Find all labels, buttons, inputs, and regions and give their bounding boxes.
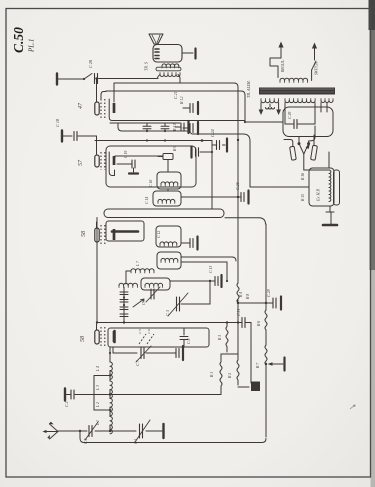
rectifier plate left xyxy=(290,146,297,160)
ground bar of C2 xyxy=(65,389,71,401)
tube 57 xyxy=(95,152,114,170)
svg-text:Ex H.P.: Ex H.P. xyxy=(316,188,321,202)
HT right wire xyxy=(314,103,316,124)
capacitor C22 xyxy=(183,124,193,133)
wire coil top xyxy=(109,347,111,362)
field coil core xyxy=(334,170,340,205)
wire screen feed upper xyxy=(181,257,236,261)
box around 58 cathode xyxy=(106,221,144,241)
wire screen rail xyxy=(106,91,245,95)
tube 47 grid hook xyxy=(101,92,106,101)
loudspeaker HP cone xyxy=(149,34,163,44)
wire plate supply rail xyxy=(114,83,238,88)
terminal bar of C22 xyxy=(197,122,199,134)
IF transformer MF3 winding xyxy=(160,242,177,246)
antenna coil L2 xyxy=(96,399,112,416)
capacitor C10 xyxy=(176,349,179,358)
IF transformer MF1 can xyxy=(153,191,181,206)
svg-text:L 3: L 3 xyxy=(96,385,100,391)
resistor R4 xyxy=(237,283,243,303)
resistor R9 xyxy=(158,146,177,160)
svg-text:L 2: L 2 xyxy=(96,402,100,408)
transformer TR.S secondary winding xyxy=(160,73,180,77)
svg-text:C 21: C 21 xyxy=(173,91,178,99)
filament wire left arrow xyxy=(259,103,264,115)
tube 47 label xyxy=(77,102,84,109)
wire HT vertical V3 upper xyxy=(265,224,267,310)
IF transformer MF2 winding xyxy=(161,182,178,186)
terminal bar of C1 xyxy=(162,424,164,438)
svg-text:C 1: C 1 xyxy=(134,439,138,444)
svg-text:C 6: C 6 xyxy=(147,329,151,334)
IF transformer MF3 can xyxy=(156,226,181,247)
rectifier filament V xyxy=(299,144,309,154)
capacitor C16 label xyxy=(149,180,153,187)
capacitor C28 xyxy=(266,289,276,308)
oscillator coupling can xyxy=(157,252,181,269)
wire to right plate xyxy=(313,135,315,146)
capacitor C2 xyxy=(65,390,74,407)
svg-text:58: 58 xyxy=(81,231,87,237)
svg-text:C 16: C 16 xyxy=(149,180,153,187)
svg-text:C 14: C 14 xyxy=(145,197,149,204)
capacitor C12 label xyxy=(157,231,161,238)
tube 47 cathode xyxy=(109,99,112,121)
svg-text:C 18: C 18 xyxy=(55,118,60,127)
wire HT to field coil box xyxy=(250,186,309,188)
wire R9 to IF transformer xyxy=(167,160,169,173)
wire secondary right end to HT rail xyxy=(178,75,180,84)
wire tap lower xyxy=(94,409,111,411)
HT left wire xyxy=(284,103,286,124)
wire tube 47 plate to rail xyxy=(113,83,115,102)
terminal bar of C28 xyxy=(280,297,282,310)
wire tube 57 plate lead xyxy=(115,156,163,158)
wire V3 mid xyxy=(265,330,267,345)
field coil box xyxy=(309,168,334,206)
wire to filament right xyxy=(309,126,315,144)
capacitor C29 xyxy=(285,112,315,129)
wire MF3 to C25 xyxy=(181,242,190,244)
oscillator winding xyxy=(145,283,163,287)
capacitor C15 in series xyxy=(143,123,151,132)
svg-text:C 20: C 20 xyxy=(88,59,93,68)
wire grid return xyxy=(110,394,221,396)
box around detector stage xyxy=(106,146,196,187)
resistor R15 label xyxy=(301,194,305,202)
wire V2 lower xyxy=(237,300,239,354)
pencil mark xyxy=(350,405,355,409)
wire rectifier output xyxy=(304,154,329,170)
wire cathode bus under tube 47 xyxy=(112,95,245,122)
box around converter cathode xyxy=(108,328,209,347)
svg-text:L 4: L 4 xyxy=(96,366,100,372)
rectifier anode arrow xyxy=(306,144,310,149)
chassis connection blob xyxy=(251,382,260,392)
wire C1 to terminal xyxy=(146,430,162,432)
svg-text:58: 58 xyxy=(80,336,86,342)
transformer TR.S core xyxy=(156,67,181,71)
wire tap upper xyxy=(94,374,111,376)
converter cathode bar xyxy=(113,331,116,342)
power supply box xyxy=(283,107,333,137)
svg-text:REGUL.: REGUL. xyxy=(281,59,285,73)
filament winding 6.3V xyxy=(261,99,279,103)
svg-text:47: 47 xyxy=(77,102,84,109)
svg-text:R 9: R 9 xyxy=(173,146,177,152)
capacitor C13 xyxy=(209,266,218,286)
resistor R3 xyxy=(218,323,228,353)
svg-text:C 13: C 13 xyxy=(209,266,213,273)
svg-text:C 3: C 3 xyxy=(165,310,170,316)
switch S1 (on/off) contact xyxy=(83,74,92,81)
capacitor C25 xyxy=(190,239,193,248)
resistor R2 xyxy=(228,354,239,385)
svg-text:SWITCH: SWITCH xyxy=(315,62,319,75)
svg-text:R 3: R 3 xyxy=(218,335,222,341)
trimmer C6 dashed xyxy=(147,329,154,344)
tube 57 label xyxy=(78,159,84,166)
wire secondary left end down xyxy=(158,75,161,79)
wire AVC drop to shield box xyxy=(211,141,213,210)
capacitor C21 xyxy=(173,91,193,112)
svg-text:C 2: C 2 xyxy=(65,402,69,407)
wire diode load line xyxy=(181,196,239,198)
switch to mains xyxy=(312,43,319,81)
wire box bottom edge under 47 stage xyxy=(110,122,180,124)
terminal bar of C24 xyxy=(226,139,228,152)
tube 58 label xyxy=(81,231,87,237)
padding capacitor C9 xyxy=(142,287,160,305)
wire screen line to V3 xyxy=(225,218,266,224)
regulator tap jog xyxy=(270,58,281,78)
primary tap winding xyxy=(280,78,308,82)
regulator tap arrow xyxy=(278,42,285,74)
ground bar of C18 xyxy=(61,131,63,142)
antenna coil L3 xyxy=(96,381,112,398)
ground bar of field coil xyxy=(323,224,337,227)
antenna coil L4 xyxy=(96,362,112,379)
tube 58 converter xyxy=(95,327,114,347)
oscillator can xyxy=(141,278,170,290)
wire C18 to grid of 57 xyxy=(78,136,97,154)
svg-text:R 12: R 12 xyxy=(179,97,184,105)
tuning capacitor C3 xyxy=(165,293,188,316)
svg-text:C.50: C.50 xyxy=(11,27,26,53)
wire to left plate xyxy=(284,140,293,147)
wire converter grid feed xyxy=(96,218,98,323)
terminal bar of tap xyxy=(283,358,285,371)
capacitor C16 xyxy=(196,148,214,156)
tuning capacitor C1 xyxy=(134,420,150,444)
wire AVC bus xyxy=(95,139,212,142)
IF transformer MF2 can xyxy=(157,172,181,189)
svg-text:C 31: C 31 xyxy=(237,309,241,316)
resistor R13 label xyxy=(172,124,177,132)
filament center tap coil xyxy=(266,104,275,109)
wire R2 to chassis xyxy=(238,386,249,388)
terminal bar of C16 xyxy=(190,147,192,158)
svg-text:C 24: C 24 xyxy=(210,129,215,137)
terminal bar of C25 xyxy=(196,237,198,250)
capacitor C8 xyxy=(180,328,191,347)
wire HT vertical V2 xyxy=(237,88,239,283)
capacitor C14 label xyxy=(145,197,149,204)
node filament right xyxy=(307,142,310,145)
oscillator coupling winding xyxy=(161,258,178,262)
terminal bar of C10 xyxy=(182,346,184,360)
svg-text:R 4: R 4 xyxy=(239,292,243,298)
trimmer capacitor C7 xyxy=(136,346,151,366)
svg-text:C 28: C 28 xyxy=(266,289,271,297)
wire coil link c xyxy=(109,407,111,416)
wire grid feed 58 xyxy=(96,222,98,228)
svg-text:C 19: C 19 xyxy=(124,151,128,158)
grid leak column xyxy=(120,287,128,322)
cathode bus of converter xyxy=(97,321,238,323)
voice coil bumps xyxy=(155,49,159,59)
rectifier filament winding xyxy=(321,99,333,103)
wire C31 to chassis xyxy=(245,323,251,384)
wire antenna to C4 xyxy=(58,430,87,432)
wire tap bracket xyxy=(93,376,95,411)
trimmer C5 dashed xyxy=(138,329,146,344)
wire to filament left xyxy=(298,137,300,144)
transformer TR.S primary winding xyxy=(162,64,179,68)
wire V3 lower xyxy=(265,363,267,437)
mains primary winding bar xyxy=(259,88,335,95)
wire upper AVC line xyxy=(118,123,250,141)
wire grid feed of tube 47 xyxy=(95,77,97,102)
tube 58 cathode bar xyxy=(112,230,138,233)
tap arrow into V3 xyxy=(268,362,284,366)
svg-text:C 29: C 29 xyxy=(288,112,292,119)
wire oscillator plate line xyxy=(170,280,215,282)
tube 58 converter label xyxy=(80,336,86,342)
terminal bar of C26 xyxy=(247,191,249,204)
field coil winding xyxy=(329,170,331,201)
svg-text:C 5: C 5 xyxy=(138,329,142,334)
terminal bar of C13 xyxy=(220,275,222,287)
antenna xyxy=(43,422,59,439)
wire speaker to terminal xyxy=(182,52,193,54)
trimmer capacitor C4 xyxy=(84,422,98,444)
rectifier plate right xyxy=(311,145,318,160)
svg-text:PL.1: PL.1 xyxy=(28,39,36,53)
loudspeaker HP body xyxy=(153,45,182,63)
wire grid feed converter xyxy=(96,321,98,330)
terminal bar at speaker output xyxy=(194,49,196,59)
wire C7 to terminal xyxy=(146,352,176,354)
transformer TR.ALIM label xyxy=(246,80,251,98)
tube 57 cathode xyxy=(109,152,114,176)
wire R1 to R2 top xyxy=(221,353,238,355)
wire to C28 xyxy=(238,294,273,304)
svg-text:C 12: C 12 xyxy=(157,231,161,238)
wire to power supply junction xyxy=(244,121,283,123)
resistor R12 label xyxy=(179,97,184,105)
svg-text:R 8: R 8 xyxy=(246,294,250,300)
wire C2 to coil junction xyxy=(75,393,111,395)
field coil label xyxy=(316,188,321,202)
svg-text:TR. S: TR. S xyxy=(144,61,149,71)
node filament left xyxy=(298,142,301,145)
wire from ground to switch xyxy=(58,78,84,80)
resistor R7 xyxy=(256,345,267,369)
wire C20 to output transformer secondary xyxy=(99,78,159,80)
tube 47 xyxy=(95,99,114,118)
capacitor C31 xyxy=(237,309,245,328)
filament wire right arrow xyxy=(276,103,281,115)
capacitor C23 with terminal bar xyxy=(175,121,189,133)
wire C3 to oscillator line xyxy=(181,281,210,304)
svg-text:C 8: C 8 xyxy=(187,339,191,344)
svg-text:R 6: R 6 xyxy=(257,321,261,327)
svg-text:R 1: R 1 xyxy=(210,372,214,378)
capacitor C20 xyxy=(88,59,98,83)
resistor R6 xyxy=(257,310,267,330)
ground chassis bar left of on/off switch xyxy=(57,74,84,85)
capacitor C18 xyxy=(55,118,77,140)
wire coil link b xyxy=(109,390,111,399)
IF transformer MF1 winding xyxy=(158,199,175,203)
resistor R16 label xyxy=(301,173,305,181)
bottom return bus xyxy=(80,431,266,443)
shield box long xyxy=(104,209,224,218)
svg-text:R 15: R 15 xyxy=(301,194,305,202)
wire L7 to grid column xyxy=(126,271,131,284)
wire MF link xyxy=(167,189,169,191)
wire coil link a xyxy=(109,371,111,381)
capacitor C24 xyxy=(210,129,225,149)
resistor R1 xyxy=(210,354,222,395)
rectifier filament wires xyxy=(321,103,327,112)
svg-text:R 16: R 16 xyxy=(301,173,305,181)
antenna coil L1 xyxy=(96,417,112,434)
svg-text:R 2: R 2 xyxy=(228,373,232,379)
tube 58 xyxy=(95,225,114,245)
svg-text:TR. ALIM.: TR. ALIM. xyxy=(246,80,251,98)
svg-text:C 4: C 4 xyxy=(84,439,88,444)
terminal bar of C21 xyxy=(197,102,199,114)
capacitor C17 in series xyxy=(161,123,169,132)
capacitor C19 xyxy=(117,151,135,172)
svg-text:L 1: L 1 xyxy=(96,420,100,426)
output transformer TR.S label xyxy=(144,61,149,71)
ground bar of C19 xyxy=(129,172,138,174)
coil L7 xyxy=(131,260,154,273)
wire under converter xyxy=(113,347,137,353)
wire to field coil xyxy=(328,152,330,168)
oscillator grid coil L8 xyxy=(119,283,137,287)
wire screen feed lower xyxy=(181,262,228,282)
wire coil bottom xyxy=(109,425,111,432)
wire drop to field coil feed xyxy=(249,141,251,187)
svg-text:57: 57 xyxy=(78,159,84,166)
wire field coil to ground xyxy=(326,206,334,224)
wire C4 to C1 xyxy=(79,430,136,432)
capacitor C26 xyxy=(235,182,244,201)
trimmer arrow xyxy=(133,299,144,307)
HT secondary winding xyxy=(285,99,315,103)
